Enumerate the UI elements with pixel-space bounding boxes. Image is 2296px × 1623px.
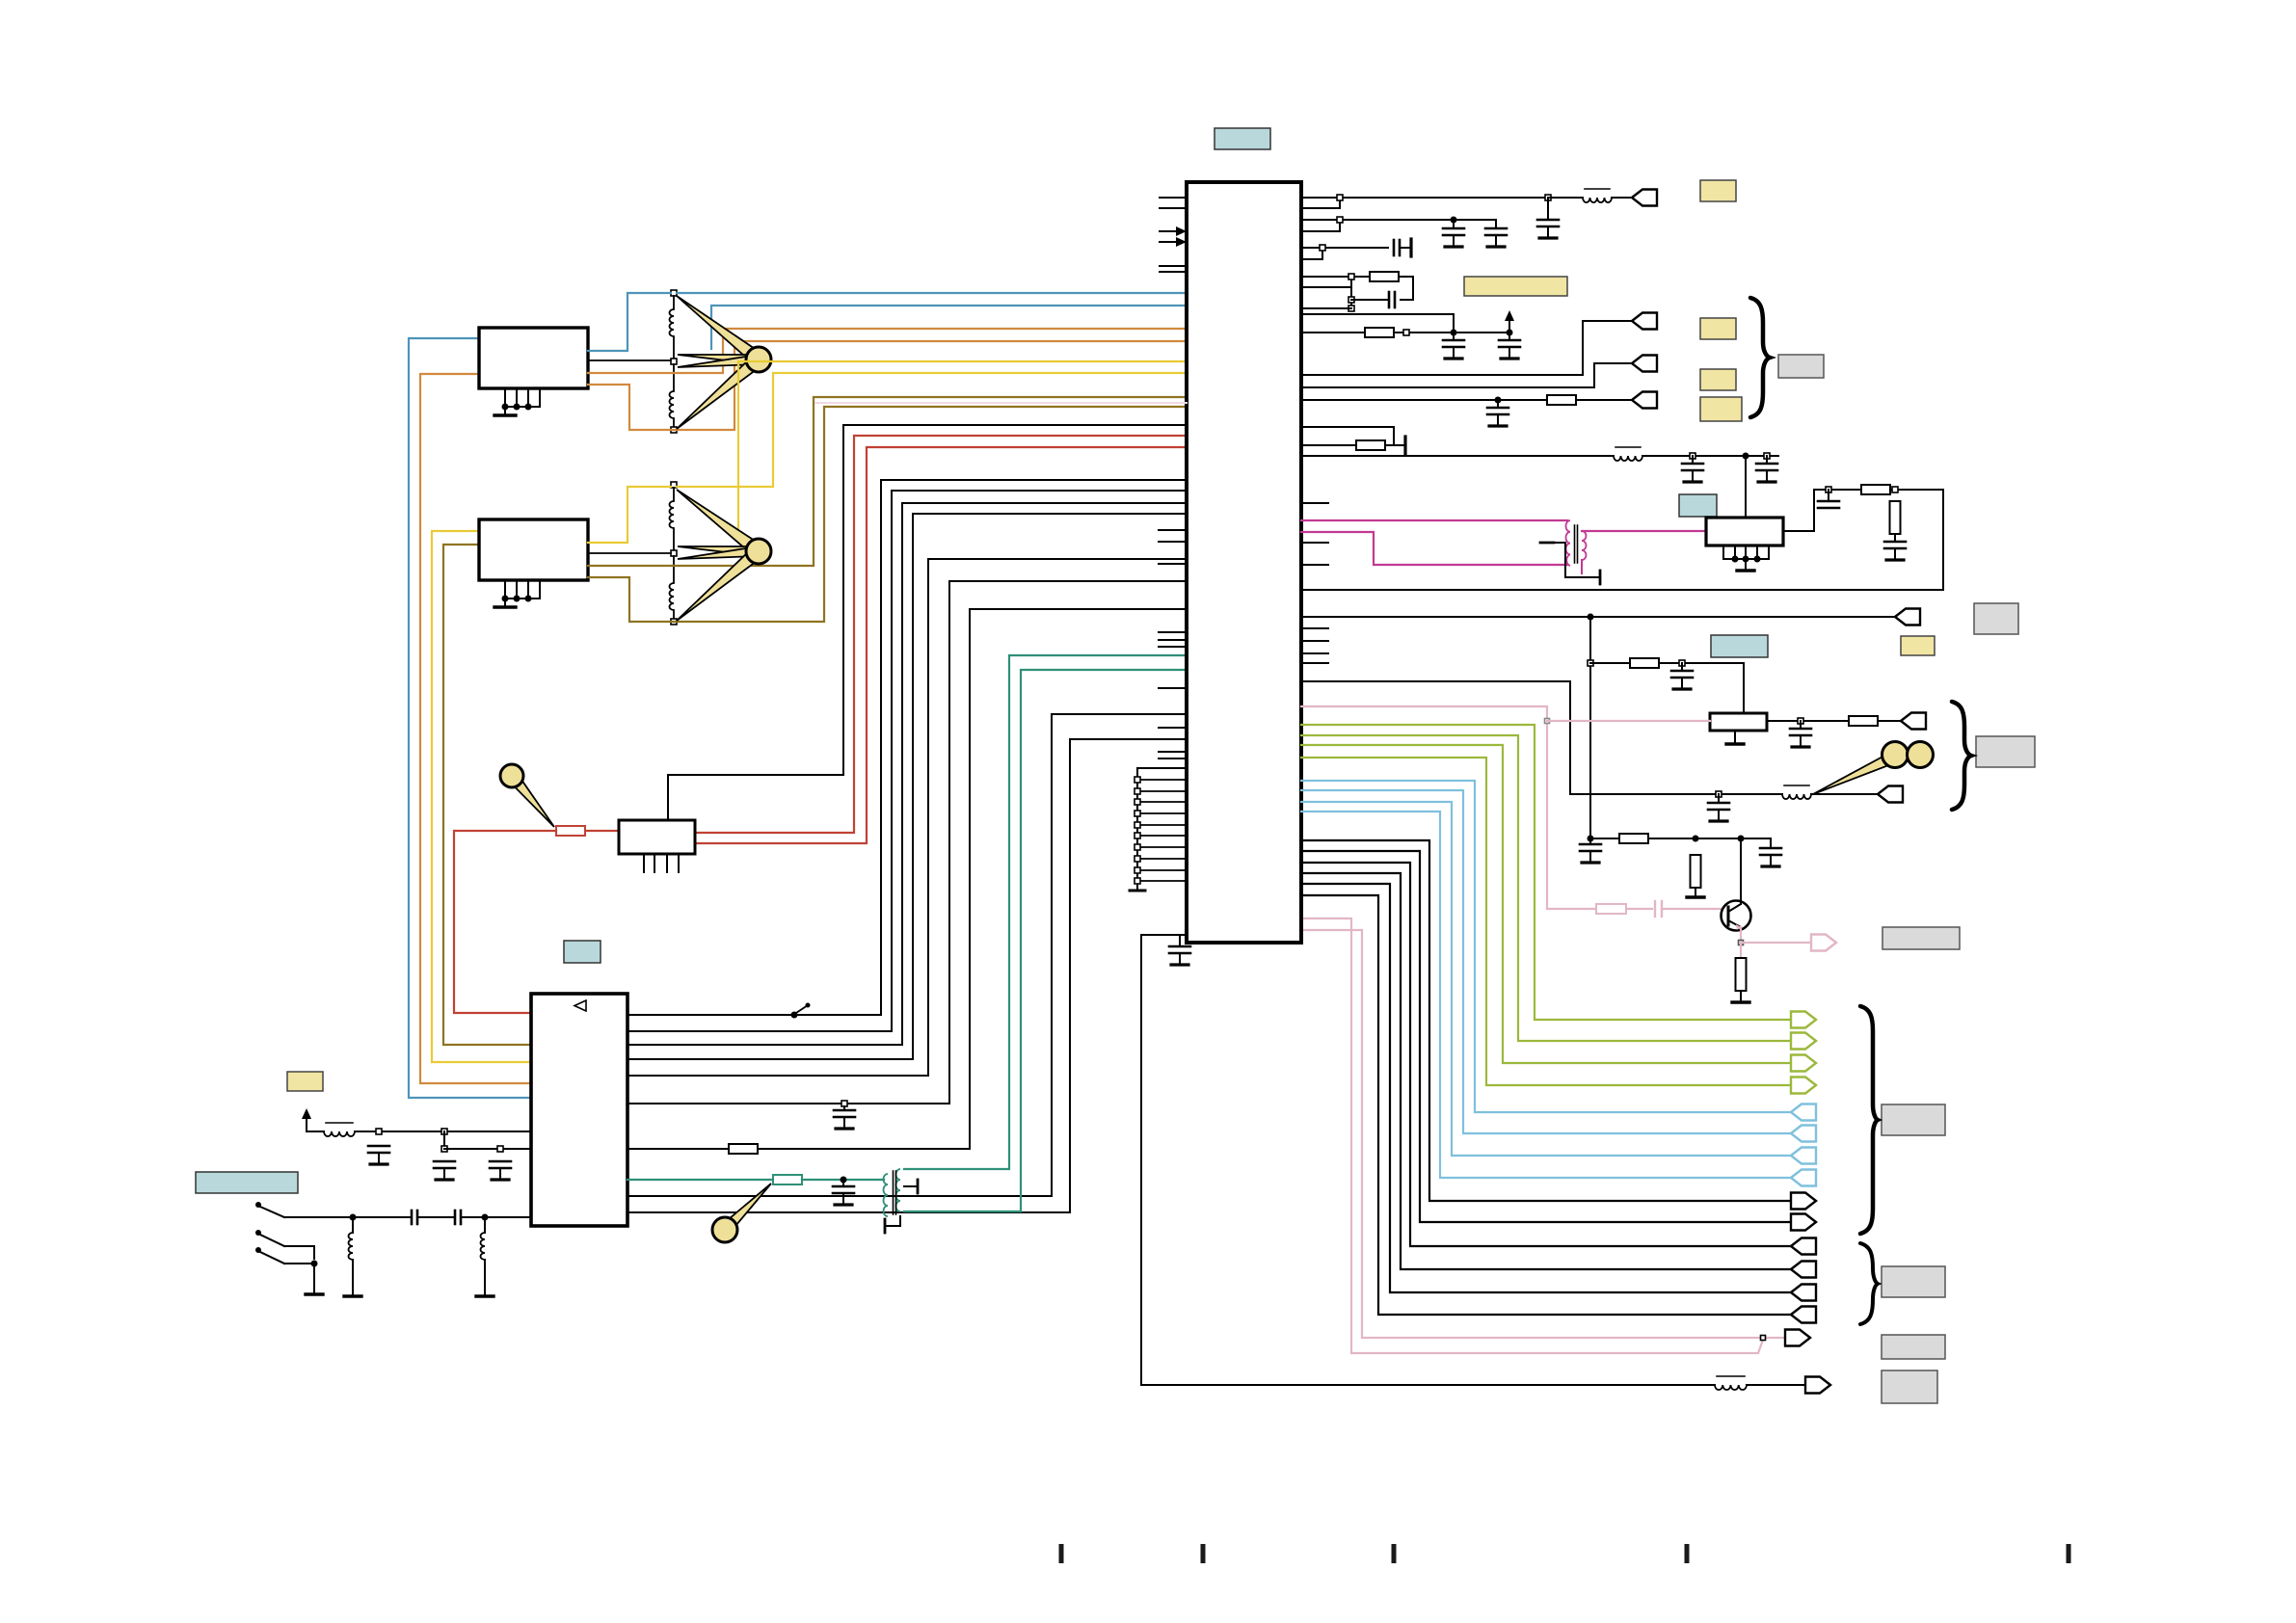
capacitor C-U3a [1671,663,1693,689]
wire net IF_TEAL_S to U1 [904,670,1187,1211]
wire net ANT2_BROWN_A [588,407,1187,622]
test point TP4 (starburst) near R-TEAL [712,1184,771,1242]
connector J7 (arrow) [1878,786,1903,803]
junction bias b (collector) [1738,836,1745,842]
connector J10-2 (light blue arrow) [1791,1126,1816,1142]
junction U2 fb node [1892,487,1898,492]
connector J6 (arrow) [1901,713,1926,730]
annotation box (gray) G1 [1974,603,2018,634]
annotation brace right-mid group [1952,702,1971,810]
connector J10-3 (light blue arrow) [1791,1148,1816,1164]
U1 left pin stub y787 [1159,758,1187,759]
wire C-PINK to Q1 base [1662,908,1726,910]
highlight box (yellow) Y1 [1700,180,1736,201]
connector J17 (arrow) [1785,1330,1810,1346]
U1 left pin arrow y251 [1160,237,1187,247]
wire net BK2 U1 to J11-2 [1301,851,1791,1222]
connector J2 (arrow) [1632,313,1657,330]
junction VBAT node B [441,1129,447,1134]
wire Z1 mid pin to ANT1 [588,359,671,361]
wire net ANT2_YELLOW_A to U1 [677,373,1187,487]
tick mark 2 [1201,1544,1206,1563]
wire W707 U1 to L-J7 [1301,681,1782,794]
annotation brace bottom-right large [1860,1006,1878,1234]
wire net OLV2 U1 to J9-2 [1301,735,1791,1041]
U1 right pin stub y586 [1301,564,1328,566]
wire bus B2 U5-U1 [627,491,1187,1031]
junctions N4 rail [1348,274,1354,311]
connector J12-3 (arrow) [1791,1285,1816,1301]
junction pink branch [1545,719,1550,724]
wire net IF_TEAL from U5 [627,1179,773,1181]
wire T2 secondary tail [1581,560,1583,573]
wire N4 main [1301,276,1370,278]
wire N2 pin2 join [1301,220,1340,231]
junction N5 c [1507,330,1513,336]
wire net BK1 U1 to J11-1 [1301,840,1791,1201]
junction VBAT node A [376,1129,382,1134]
U1 left pin stub y205 [1160,197,1187,199]
wire N4 to C-N4 [1351,299,1389,301]
junction rail a [1588,660,1593,666]
wire net LBL3 U1 to J10-3 [1301,802,1791,1156]
resistor R-U2b (vertical) [1890,501,1901,534]
junction VREG node C [497,1146,503,1152]
connector J9-3 (olive arrow) [1791,1055,1816,1072]
wire U4 input left [585,830,619,832]
capacitor C-N1 [1537,198,1559,238]
resistor R-RED (crystal load) [556,826,585,836]
wire net OLV1 U1 to J9-1 [1301,725,1791,1020]
highlight box (yellow) Y3 [1700,369,1736,390]
tick mark 3 [1392,1544,1397,1563]
wire net ANT1_ORANGE_B [588,329,1187,373]
U1 left pin stub y755 [1159,727,1187,729]
resistor R-N5 [1365,328,1394,337]
capacitor C-W473b [1756,456,1777,482]
wire net RX_BROWN block2-left to U5 [443,545,531,1045]
connector J9-1 (olive arrow) [1791,1012,1816,1028]
junction U3 top node [1679,660,1685,666]
inductor L-J7 [1782,785,1811,799]
wire W473 from U1 [1301,455,1614,457]
junction Q1 emitter node [1739,941,1744,945]
ground U2 pins [1723,545,1769,571]
highlight box (yellow) Y2 [1700,318,1736,339]
ground S2/S3 [306,1264,323,1294]
audio amplifier U2 [1706,518,1783,545]
wire net PINK_B U1 to J17 [1301,930,1785,1338]
switch S3 contact [255,1247,284,1264]
connector J12-1 (arrow) [1791,1238,1816,1255]
wire net ANT2_BROWN_B [588,397,1187,566]
U4 bottom pins [644,854,679,872]
tick mark 1 [1059,1544,1064,1563]
test point TP5 (double starburst) [1813,742,1934,795]
junction N2 b [1451,217,1457,224]
highlight box (blue) top [1215,128,1270,149]
wire bias rail vertical [1589,617,1591,838]
crystal oscillator U4 [619,820,695,854]
junction S1 node D [482,1214,489,1221]
ground R-Q1b [1687,888,1704,897]
inductor L-VBAT [324,1123,355,1136]
connector J12-4 (arrow) [1791,1307,1816,1323]
resistor R-J4 [1547,395,1576,405]
wire R-U3 to U3 top [1659,663,1744,713]
highlight box (blue) mid-left [564,941,601,963]
connector J10-4 (light blue arrow) [1791,1170,1816,1186]
connector J4 (arrow) [1632,392,1657,409]
wire W640 U1 to J5 [1301,616,1895,618]
ground Z1 pins [494,388,540,415]
wire net OLV4 U1 to J9-4 [1301,758,1791,1085]
antenna switch module Z2 [479,519,588,580]
capacitor C-U2b [1884,534,1906,560]
wire emitter to J8 [1741,942,1811,944]
wire net BK6 U1 to J12-4 [1301,895,1791,1315]
annotation brace right-top group [1750,298,1770,417]
capacitor C-U3b [1790,721,1811,747]
wire Z2 mid pin to ANT2 [588,552,671,554]
highlight box (blue) wide bottom-left [196,1172,298,1193]
junction teal node [841,1177,847,1184]
wire net ANT2_YELLOW_B from U1 [738,361,1187,540]
antenna element L-ANT2 with feed points [670,482,678,625]
capacitor C-TEAL [833,1180,854,1205]
wire net PINK_IN U1 to R-PINK [1301,706,1596,909]
junction N1 b [1545,195,1551,200]
junction W473 c [1764,453,1770,459]
highlight box (yellow) Y4 [1700,397,1742,421]
capacitor C-N5a [1443,333,1464,359]
resistor R-N6 [1356,440,1385,450]
antenna element L-ANT1 with feed points [670,290,678,433]
wire net PINK_FAINT to U1 [815,402,1187,404]
connector J8 (pink arrow) [1811,935,1836,951]
capacitor C-N5b [1499,333,1520,359]
resistor R-Q1b (vertical) [1691,855,1701,888]
terminator N6 [1394,437,1405,454]
ground U3 [1726,731,1744,744]
connector J-ANT (arrow) [1805,1377,1830,1394]
wire U1 to R-J4 [1301,399,1547,401]
wire U2 output up [1783,490,1861,531]
antenna switch module Z1 [479,328,588,388]
highlight box (yellow) bottom-left [287,1072,323,1091]
wire W473 rail [1642,455,1778,457]
wire net CLK_RED_IN to U5 [454,831,556,1013]
inductor L-S2 to ground [476,1217,494,1296]
capacitor C-PINK (series) [1655,901,1662,917]
connector J12-2 (arrow) [1791,1262,1816,1278]
capacitor C-VBAT3 [490,1161,511,1180]
U1 left pin stub y276 [1160,265,1187,267]
connector J10-1 (light blue arrow) [1791,1104,1816,1121]
junction U3 out node [1798,718,1803,724]
U1 right pin stub y665 [1301,640,1328,642]
wire N6 pin1 [1301,427,1394,445]
resistor R-PINK [1596,904,1626,914]
wire N5 pin1 [1301,314,1454,333]
wire net CLK_RED_A U4 to U1 [695,436,1187,833]
U1 left pin stub y282 [1160,271,1187,273]
wire Q1 emitter down [1740,927,1742,943]
capacitor C-B6 [834,1106,855,1129]
capacitor C-VBAT2 [434,1161,455,1180]
junction bias a [1693,836,1699,842]
wire feedback loop to U1 [1301,490,1943,590]
wire net BK4 U1 to J12-2 [1301,873,1791,1269]
U1 left pin stub y780 [1159,751,1187,753]
junction N5 b [1451,330,1457,336]
connector J11-1 (arrow) [1791,1193,1816,1210]
annotation box (gray) G4 [1882,1104,1945,1135]
wire L-N1 to J1 [1612,197,1632,199]
capacitor C-N3 (series) [1394,240,1400,255]
connector J1 (arrow) [1632,190,1657,206]
wire N4 pin2 [1301,286,1351,288]
wire net MAG_P2 U1 to T2 [1301,532,1567,565]
wire N4 pin3 [1301,307,1351,309]
tick mark 5 [2067,1544,2071,1563]
power arrow N5 VCC [1505,310,1514,333]
wire C-S2 to U5 [461,1216,531,1218]
wire rail to R-Q1 [1590,838,1619,839]
U1 left pin stub y714 [1159,687,1187,689]
wire L-OUT to connector [1747,1384,1805,1386]
junction rail b [1588,836,1594,842]
wire net ANT1_BLUE_B from U1 [711,306,1187,349]
U1 left pin stub y550 [1159,529,1187,531]
ground R-E [1732,991,1749,1002]
wire VREG to U5 [444,1148,531,1150]
resistor R-Q1 [1619,834,1648,843]
resistor R-J6 [1849,716,1878,726]
junction N5 a [1403,330,1409,335]
wire net LBL2 U1 to J10-2 [1301,790,1791,1133]
transformer T2 (magenta) [1566,520,1587,566]
inductor L-W473 [1614,447,1642,461]
resistor R-TEAL [773,1175,802,1184]
U1 right pin stub y688 [1301,662,1328,664]
wire net CLK_RED_B U4 to U1 [695,447,1187,843]
capacitor C-U2a [1818,490,1839,508]
wire R-PINK to C-PINK [1626,908,1652,910]
wire N1 pin2 join [1301,198,1340,208]
wire pink branch to U3 [1547,720,1710,722]
U1 left pin stub y656 [1159,631,1187,633]
wire net RX_YELLOW block2-left to U5 [432,531,531,1062]
U5 orientation triangle [574,1000,586,1011]
wire Q1 collector up [1740,838,1742,904]
wire net MAG_S to U2 [1582,530,1706,532]
inductor L-N1 [1583,189,1612,202]
wire to C-S1 [353,1216,412,1218]
switch S2 contact [255,1230,284,1246]
wire R-J6 to J6 [1878,720,1901,722]
wire node B down [443,1131,445,1149]
resistor R-E (vertical) [1736,958,1747,991]
wire big loop U1 to J-ANT [1141,935,1715,1385]
resistor R-N4 [1370,272,1399,281]
connector J9-2 (olive arrow) [1791,1033,1816,1050]
wire to L-N1 [1548,197,1583,199]
capacitor C-N2b [1485,220,1507,247]
connector J9-4 (olive arrow) [1791,1078,1816,1094]
wire R-Q1 to bias net [1648,838,1771,848]
wire N5 pin2 [1301,332,1365,333]
test point TP2 (starburst) antenna2 [677,490,771,621]
capacitor C-S2 (series) [455,1211,461,1224]
wire net ANT1_BLUE_A to U1 [677,292,1187,294]
wire net BK5 U1 to J12-3 [1301,884,1791,1292]
ground T1 primary bottom [885,1216,900,1233]
annotation box (gray) G0 [1778,355,1824,378]
U1 right pin stub y652 [1301,627,1328,629]
switch tap on B1 [791,1003,811,1019]
annotation box (gray) G7 [1882,1370,1937,1403]
wire C-S1 to C-S2 [417,1216,455,1218]
wire N3 main [1301,247,1388,249]
highlight box (yellow) wide near U1 [1464,277,1567,296]
capacitor C-J4 [1487,400,1508,426]
wire bus B6 U5-U1 [627,581,1187,1104]
wire L-VBAT to U5 [355,1131,531,1132]
wire U1 to J3 [1301,363,1632,387]
resistor R-U3 [1630,658,1659,668]
junction N3 a [1320,245,1325,251]
junction W707 node [1716,791,1722,797]
junction W473 a [1690,453,1695,459]
wire N2 main [1301,219,1496,221]
inductor L-OUT [1715,1376,1747,1390]
U1 right pin stub y563 [1301,542,1328,544]
junction W640/rail [1588,614,1594,621]
capacitor C-VBAT1 [368,1146,389,1164]
annotation brace bottom-right small [1860,1243,1878,1324]
highlight box (blue) right mid [1711,635,1768,657]
wire S3 to ground node [284,1263,314,1264]
U1 left pin stub y216 [1160,207,1187,209]
wire net RX_ORANGE block1-left to U5 [420,374,531,1083]
wire S2 to ground node [284,1246,314,1259]
wire net ANT1_BLUE_A [588,293,671,351]
U1 left pin stub y671 [1159,646,1187,648]
highlight box (yellow) Y5 [1901,636,1935,655]
ground Z2 pins [494,580,540,607]
test point TP1 (starburst) antenna1 [677,296,771,429]
wire bus B9 U5-U1 [627,739,1187,1212]
junction U2 out node [1826,487,1831,492]
wire net LBL4 U1 to J10-4 [1301,811,1791,1178]
filter block U3 [1710,713,1767,731]
wire R-J4 to J4 [1576,399,1632,401]
wire U3 out [1767,720,1849,722]
junction VREG node [441,1146,447,1152]
junction on B6 [841,1101,847,1106]
wire U1 to J2 [1301,321,1632,375]
wire R-TEAL to T1 [802,1179,884,1181]
wire S1 to C-S1 [284,1216,353,1218]
wire net ANT2_YELLOW_A [588,487,671,543]
power arrow VBAT [302,1108,311,1131]
wire N4 rail [1350,277,1352,308]
junction J4 node [1495,397,1502,404]
wire W473 down to U2 [1745,456,1747,518]
wire emitter to R-E [1740,943,1742,958]
junction W473 b [1743,453,1749,460]
capacitor C-bias [1760,848,1781,866]
wire N5 rail [1394,332,1509,333]
wire L-J7 to J7 [1811,793,1878,795]
annotation box (gray) G6 [1882,1335,1945,1359]
capacitor C-J7 [1708,794,1729,821]
terminator T1 secondary tap [904,1180,918,1193]
capacitor C-LOOP [1169,935,1190,965]
wire VBAT to L-VBAT [307,1131,324,1132]
U1 left pin stub y562 [1159,541,1187,543]
connector J5 (arrow) [1895,609,1920,625]
wire bus B8 U5-U1 [627,714,1187,1196]
junction S1 node [350,1214,357,1221]
wire N1 main [1301,197,1548,199]
transformer T1 [884,1169,901,1216]
capacitor C-N4 (series) [1389,292,1395,307]
annotation box (gray) G3 [1882,927,1960,949]
wire C-N3 out [1400,247,1409,249]
connector J3 (arrow) [1632,356,1657,372]
wire bus B4 U5-U1 [627,514,1187,1059]
RF front-end block U5 [531,994,627,1226]
wire bus B7 to U1 [758,609,1187,1149]
resistor R-B7 [729,1144,758,1154]
annotation box (gray) G2 [1976,736,2035,767]
switch S1 contact [255,1202,284,1217]
wire N3 pin2 join [1301,248,1322,259]
junction N1 a [1337,195,1343,200]
wire net OLV3 U1 to J9-3 [1301,745,1791,1063]
wire N4 loop [1399,277,1413,300]
junction N2 a [1337,217,1343,223]
ground T2 tap [1540,543,1600,584]
wire net LBL1 U1 to J10-1 [1301,781,1791,1112]
U1 test pad ladder [1130,768,1187,891]
wire rail to R-U3 [1590,662,1630,664]
U1 left pin stub y585 [1159,563,1187,565]
capacitor C-N2a [1443,220,1464,247]
U1 left pin stub y664 [1159,639,1187,641]
highlight box (blue) near transformer [1679,494,1717,517]
wire net MAG_P1 U1 to T2 [1301,519,1567,521]
connector J11-2 (arrow) [1791,1214,1816,1231]
wire B7 left part [627,1148,729,1150]
wire net BK3 U1 to J12-1 [1301,863,1791,1246]
junction S2/S3 node [311,1261,318,1267]
wire net IF_TEAL_P to U1 [904,655,1187,1169]
capacitor C-W473a [1682,456,1703,482]
tick mark 4 [1685,1544,1690,1563]
inductor L-S1 to ground [344,1217,361,1296]
terminator N3 [1409,239,1412,256]
wire net PINK_A U1 to J17 [1301,918,1763,1353]
U1 left pin arrow y240 [1160,226,1187,236]
U1 right pin stub y678 [1301,652,1328,654]
baseband IC U1 [1187,182,1301,943]
resistor R-U2 [1861,485,1890,494]
wire bus B1 U5-U1 [627,480,1187,1015]
wire U4 top pin to U1 [668,425,1187,820]
